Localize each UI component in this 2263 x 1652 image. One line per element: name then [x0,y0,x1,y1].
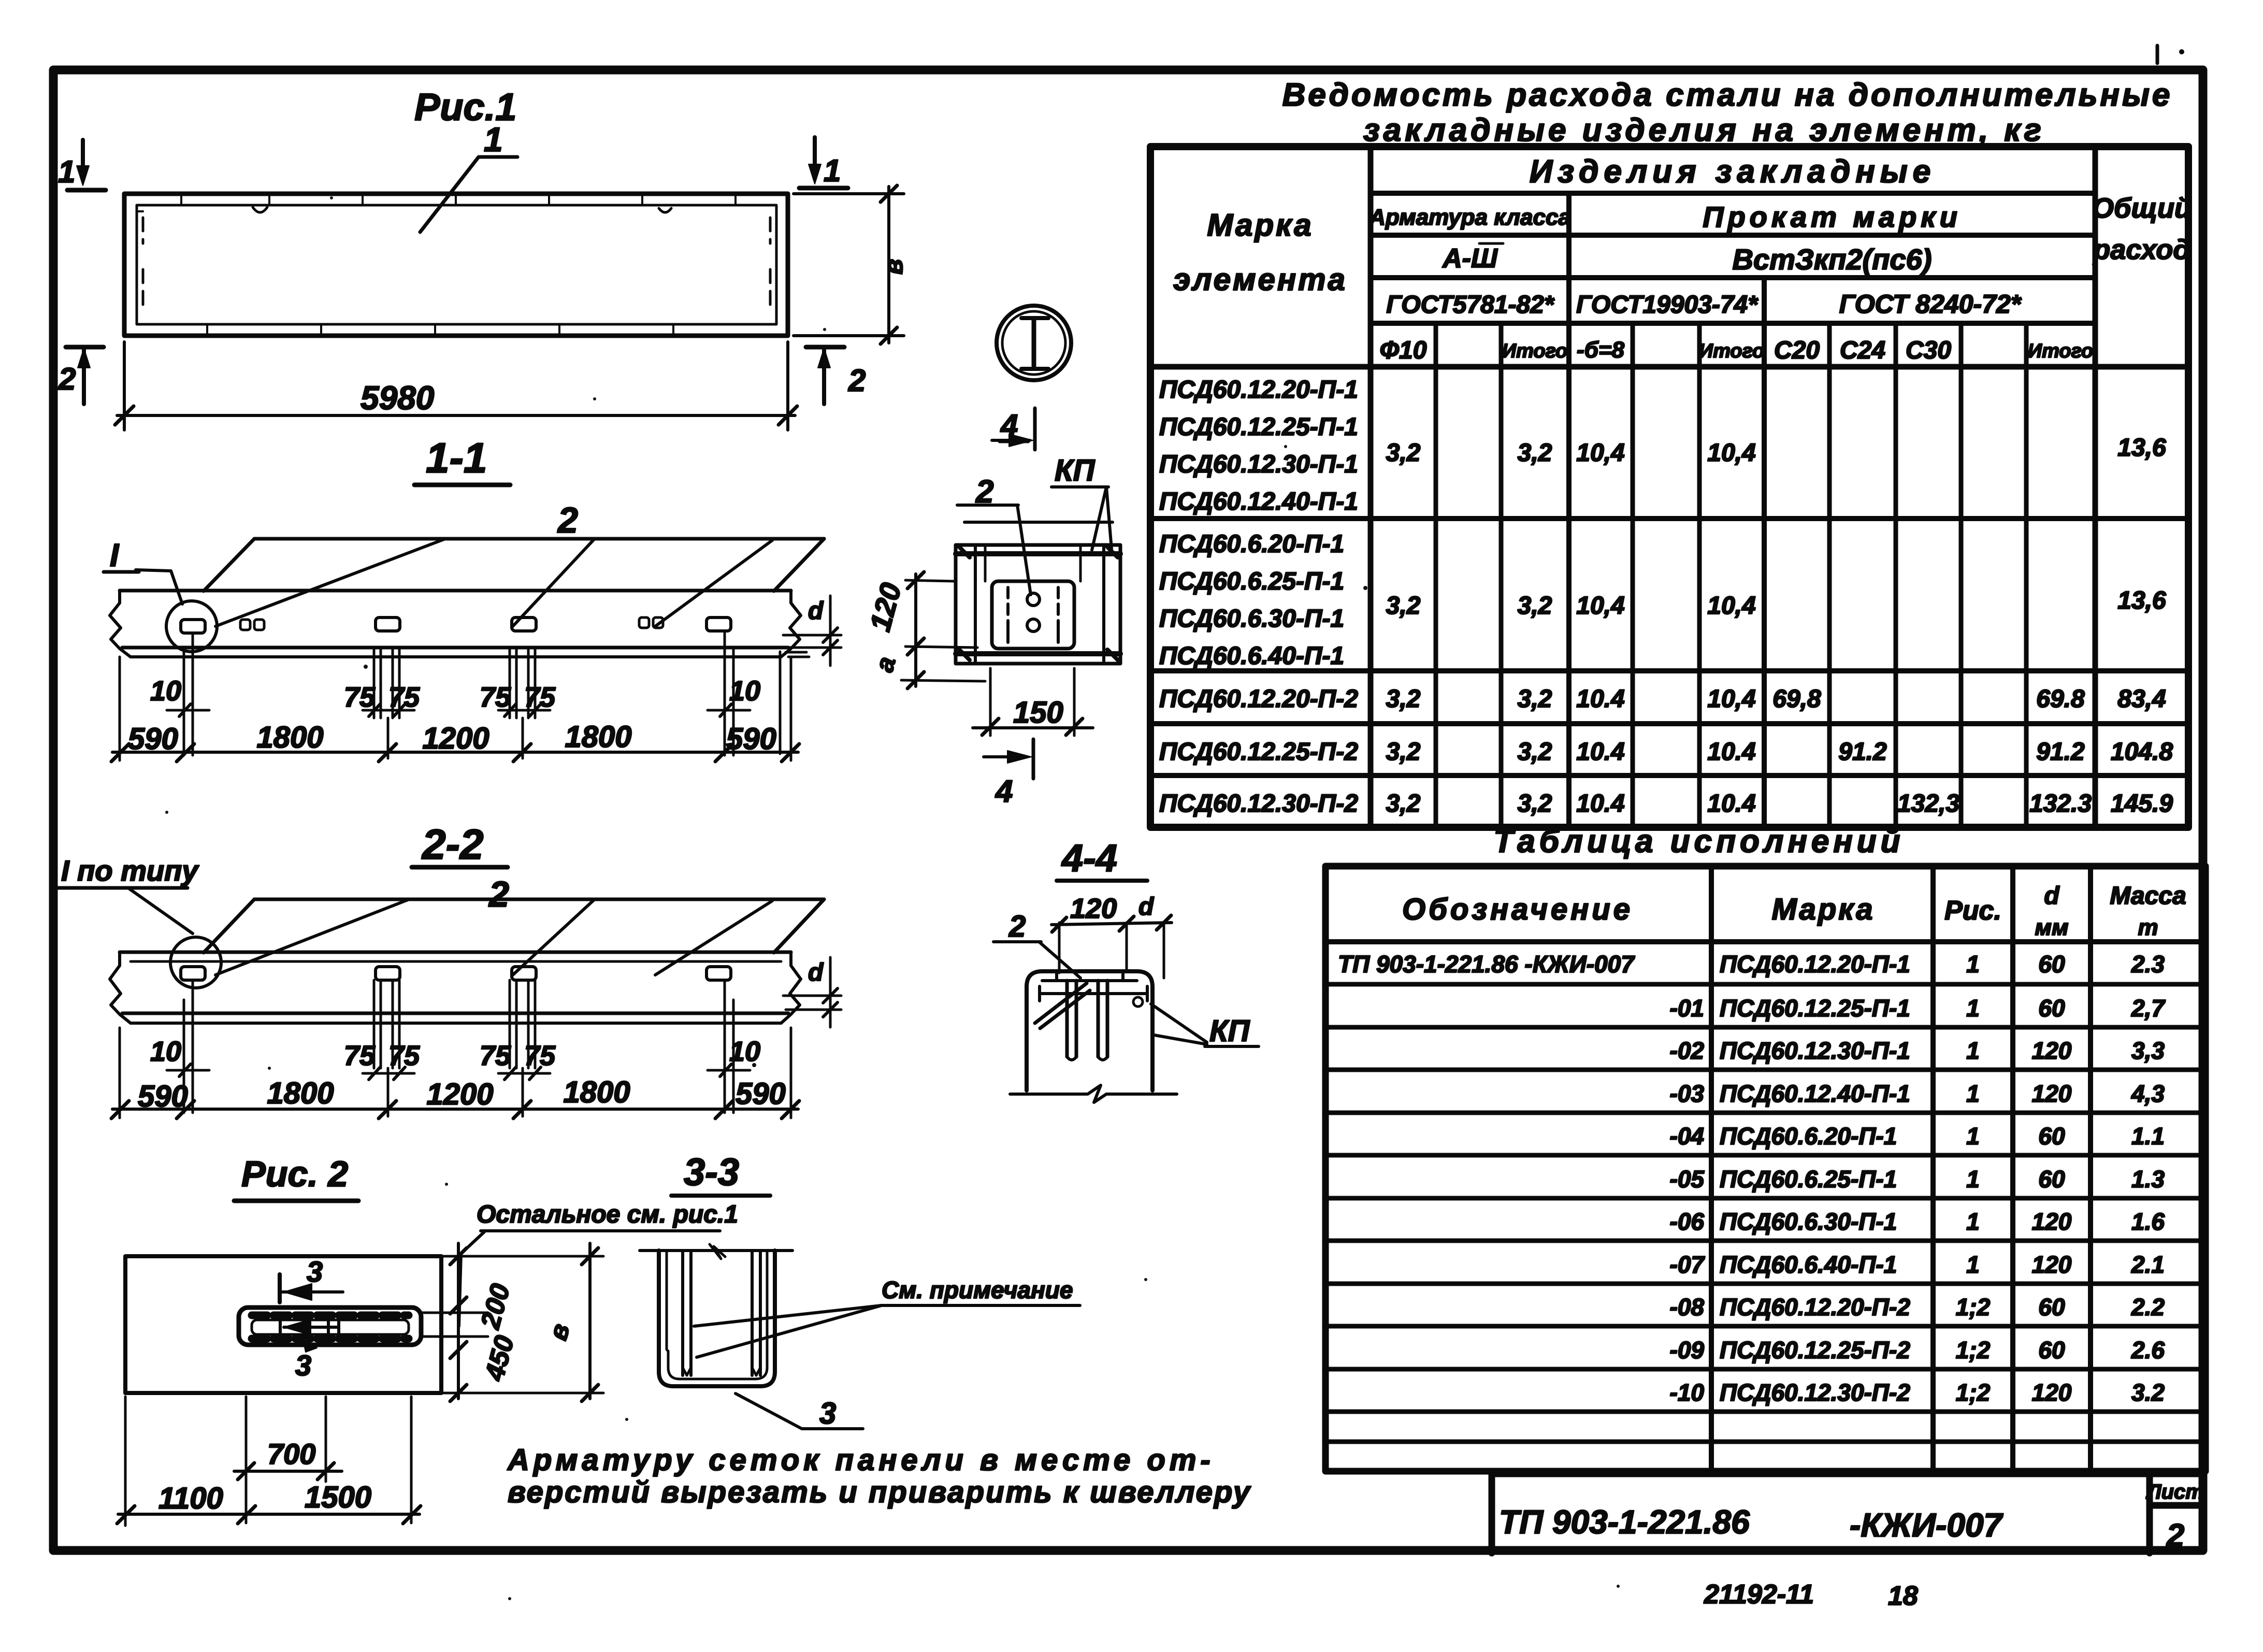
section marker 4 top [992,408,1035,450]
svg-text:-08: -08 [1670,1294,1705,1320]
section 1-1 dims 10 [150,633,760,755]
svg-text:10: 10 [150,1036,181,1067]
svg-text:590: 590 [128,722,178,756]
svg-text:Общий: Общий [2092,193,2192,224]
label КП on detail view [1051,454,1112,550]
svg-text:3: 3 [307,1255,323,1288]
svg-text:60: 60 [2038,995,2065,1022]
svg-text:2: 2 [848,363,866,398]
svg-text:Итого: Итого [1502,340,1567,362]
svg-text:Ф10: Ф10 [1380,337,1427,364]
svg-text:Обозначение: Обозначение [1402,893,1633,926]
section marker 2 left [58,347,104,404]
section heading 2-2 [412,821,508,868]
svg-text:С24: С24 [1840,337,1885,364]
svg-text:75: 75 [344,682,376,713]
svg-text:ПСД60.6.20-П-1: ПСД60.6.20-П-1 [1720,1123,1897,1150]
svg-text:3,2: 3,2 [1518,738,1552,766]
svg-text:10.4: 10.4 [1576,738,1624,766]
svg-text:3,2: 3,2 [1518,685,1552,713]
section 2-2 dim d at right end [783,957,841,1027]
svg-text:Остальное см. рис.1: Остальное см. рис.1 [477,1201,738,1228]
svg-text:83,4: 83,4 [2117,685,2166,713]
leader 2 on detail view [957,474,1031,595]
section heading 3-3 [671,1151,770,1196]
svg-text:1: 1 [824,153,841,188]
execution table header texts [1402,882,2186,940]
svg-text:10,4: 10,4 [1576,592,1624,620]
svg-text:3: 3 [819,1397,836,1430]
svg-text:120: 120 [2032,1080,2072,1107]
svg-text:Ведомость расхода стали на доп: Ведомость расхода стали на дополнительны… [1282,77,2173,113]
dim 700 below Рис.2 [234,1397,342,1523]
svg-text:d: d [808,597,824,625]
section 2-2 beam body [110,952,801,1023]
execution table data rows [1338,951,2166,1406]
channel slot in Рис.2 [239,1308,421,1345]
section 2-2 callout plane 2 [204,874,824,975]
height dimension в right of panel [794,185,908,344]
svg-text:75: 75 [524,1040,556,1071]
svg-text:Арматуру сеток панели в ме: Арматуру сеток панели в месте от- [507,1443,1215,1477]
svg-text:590: 590 [726,722,776,756]
section 1-1 studs and 75 dims [344,648,556,718]
svg-text:60: 60 [2038,1123,2065,1150]
svg-text:1;2: 1;2 [1956,1294,1991,1320]
svg-text:120: 120 [863,580,907,635]
svg-text:1: 1 [1966,1166,1980,1193]
svg-text:10.4: 10.4 [1576,685,1624,713]
section 1-1 main dimension line 590 1800 1200 1800 590 [111,657,799,762]
svg-text:60: 60 [2038,1166,2065,1193]
svg-text:590: 590 [736,1077,786,1111]
svg-text:А-Ш: А-Ш [1442,243,1498,274]
svg-text:закладные изделия на элемен: закладные изделия на элемент, кг [1363,112,2045,148]
svg-text:2.2: 2.2 [2131,1294,2165,1320]
svg-text:в: в [879,259,908,275]
svg-text:ПСД60.12.25-П-2: ПСД60.12.25-П-2 [1159,738,1358,766]
section 1-1 embedded plates [181,617,731,633]
section 4-4 dims 120 and d [1051,893,1172,978]
svg-text:1;2: 1;2 [1956,1379,1991,1406]
svg-text:1200: 1200 [422,722,489,755]
section 1-1 callout plane 2 [204,500,824,626]
table «Таблица исполнений» title [1493,824,1904,859]
detail circle on 2-2 [170,937,221,988]
svg-text:5980: 5980 [361,379,434,416]
svg-text:Марка: Марка [1207,208,1313,242]
svg-text:ГОСТ5781-82*: ГОСТ5781-82* [1386,291,1554,319]
svg-text:ПСД60.12.30-П-1: ПСД60.12.30-П-1 [1159,451,1358,478]
svg-text:2: 2 [58,362,76,396]
svg-text:10: 10 [729,676,760,707]
panel plan view Рис.1 [124,194,788,336]
svg-text:-09: -09 [1670,1337,1705,1363]
svg-text:а: а [870,653,901,674]
execution table grid [1325,866,2206,1471]
table header texts [1173,154,2192,364]
svg-text:2-2: 2-2 [421,821,484,868]
leader 3 on section 3-3 [736,1394,863,1430]
svg-text:ТП 903-1-221.86: ТП 903-1-221.86 [1499,1503,1750,1541]
svg-text:ПСД60.12.20-П-1: ПСД60.12.20-П-1 [1159,376,1358,404]
svg-text:3,2: 3,2 [1386,738,1421,766]
svg-text:Итого: Итого [1699,340,1764,362]
svg-text:75: 75 [480,682,511,713]
svg-text:1800: 1800 [256,721,323,754]
svg-text:d: d [1138,893,1155,921]
svg-text:мм: мм [2035,915,2068,940]
svg-text:ПСД60.12.30-П-2: ПСД60.12.30-П-2 [1159,790,1358,817]
svg-text:ПСД60.6.30-П-1: ПСД60.6.30-П-1 [1159,605,1344,633]
svg-text:1100: 1100 [158,1482,223,1515]
svg-text:ПСД60.12.25-П-2: ПСД60.12.25-П-2 [1720,1337,1910,1363]
svg-text:ПСД60.6.40-П-1: ПСД60.6.40-П-1 [1159,642,1344,670]
leader 2 on section 4-4 [993,910,1080,978]
svg-text:ПСД60.12.25-П-1: ПСД60.12.25-П-1 [1159,413,1358,441]
svg-text:60: 60 [2038,951,2065,978]
svg-text:60: 60 [2038,1294,2065,1320]
svg-text:ПСД60.12.40-П-1: ПСД60.12.40-П-1 [1720,1080,1910,1107]
svg-text:2: 2 [488,874,509,914]
section 4-4 break line [1010,1085,1177,1102]
svg-text:200: 200 [475,1281,516,1332]
figure label Рис.1 [414,85,516,128]
svg-text:3,2: 3,2 [1386,685,1421,713]
svg-text:-07: -07 [1670,1251,1706,1278]
svg-text:13,6: 13,6 [2117,434,2166,462]
svg-text:2.6: 2.6 [2131,1337,2165,1363]
svg-text:3,2: 3,2 [1386,439,1421,467]
svg-text:КП: КП [1209,1014,1250,1048]
svg-text:4,3: 4,3 [2131,1080,2165,1107]
svg-text:1800: 1800 [563,1075,630,1109]
detail circle I on 1-1 [104,538,217,652]
steel consumption table grid [1150,147,2188,827]
svg-text:2: 2 [2166,1518,2184,1554]
dim 120 and a left of detail view [863,572,985,688]
figure label Рис.2 [234,1154,358,1201]
svg-text:10: 10 [150,676,181,707]
svg-text:ПСД60.6.25-П-1: ПСД60.6.25-П-1 [1720,1166,1897,1193]
svg-text:Таблица исполнений: Таблица исполнений [1493,824,1904,859]
section marker 4 bottom [984,739,1033,809]
svg-text:91.2: 91.2 [1838,738,1887,766]
svg-text:590: 590 [138,1080,188,1113]
svg-text:3,2: 3,2 [1386,592,1421,620]
svg-text:13,6: 13,6 [2117,587,2166,614]
svg-text:Лист: Лист [2145,1481,2204,1503]
svg-text:120: 120 [2032,1251,2072,1278]
svg-text:верстий вырезать и приварит: верстий вырезать и приварить к швеллеру [508,1475,1251,1509]
svg-text:ВстЗкп2(пс6): ВстЗкп2(пс6) [1733,243,1932,276]
svg-text:-10: -10 [1670,1379,1705,1406]
svg-text:1: 1 [1966,951,1980,978]
svg-text:3: 3 [295,1349,311,1382]
dims 1100 1500 below Рис.2 [117,1397,421,1526]
section heading 1-1 [414,435,510,485]
svg-text:104.8: 104.8 [2111,738,2173,766]
svg-text:ГОСТ 8240-72*: ГОСТ 8240-72* [1839,290,2022,319]
svg-text:ПСД60.6.20-П-1: ПСД60.6.20-П-1 [1159,530,1344,558]
svg-text:Прокат марки: Прокат марки [1703,200,1962,233]
label Остальное см.рис.1 [459,1201,738,1326]
detail view I plate assembly [956,522,1120,664]
svg-text:1500: 1500 [305,1481,371,1514]
table data rows [1159,376,2173,817]
dims 200 450 в right of Рис.2 [421,1243,603,1401]
svg-text:1: 1 [58,154,75,189]
svg-text:Рис. 2: Рис. 2 [241,1154,348,1194]
section heading 4-4 [1057,837,1147,881]
svg-text:-01: -01 [1670,995,1704,1022]
scan noise specks [165,196,1620,1600]
svg-text:18: 18 [1888,1581,1918,1611]
svg-text:1.6: 1.6 [2131,1208,2165,1235]
svg-text:1: 1 [1966,1080,1980,1107]
svg-text:1.3: 1.3 [2131,1166,2165,1193]
svg-text:ПСД60.6.40-П-1: ПСД60.6.40-П-1 [1720,1251,1897,1278]
table «Ведомость расхода стали» title [1282,77,2173,148]
svg-text:Арматура класса: Арматура класса [1368,205,1571,230]
svg-text:120: 120 [1070,893,1117,924]
svg-text:132,3: 132,3 [1897,790,1959,817]
label КП on section 4-4 [1151,1004,1259,1048]
svg-text:1800: 1800 [565,720,631,754]
svg-text:75: 75 [524,682,556,713]
leader 1 on panel [420,120,517,232]
svg-text:ПСД60.12.20-П-2: ПСД60.12.20-П-2 [1159,685,1358,713]
section 2-2 main dimension line 590 1800 1200 1800 590 [111,1028,799,1118]
svg-text:150: 150 [1013,696,1063,729]
svg-text:ПСД60.12.20-П-2: ПСД60.12.20-П-2 [1720,1294,1910,1320]
svg-text:75: 75 [480,1040,511,1071]
svg-text:10,4: 10,4 [1707,592,1755,620]
svg-text:4: 4 [995,774,1013,809]
svg-text:ПСД60.12.30-П-2: ПСД60.12.30-П-2 [1720,1379,1910,1406]
svg-text:ПСД60.6.25-П-1: ПСД60.6.25-П-1 [1159,568,1344,595]
svg-text:91.2: 91.2 [2036,738,2085,766]
svg-text:ПСД60.12.40-П-1: ПСД60.12.40-П-1 [1159,488,1358,515]
svg-text:d: d [2044,882,2060,910]
svg-text:в: в [543,1320,575,1343]
svg-text:Итого: Итого [2028,340,2093,362]
svg-text:ПСД60.12.20-П-1: ПСД60.12.20-П-1 [1720,951,1910,978]
svg-text:69.8: 69.8 [2036,685,2085,713]
svg-text:I: I [110,538,120,573]
svg-text:3,2: 3,2 [1518,592,1552,620]
svg-text:1;2: 1;2 [1956,1337,1991,1363]
svg-text:21192-11: 21192-11 [1704,1579,1814,1610]
svg-text:Изделия закладные: Изделия закладные [1530,154,1936,190]
note text about cutting mesh reinforcement [507,1443,1251,1509]
svg-text:3,3: 3,3 [2131,1037,2165,1064]
section marker 2 right [806,347,866,404]
section 1-1 beam body [110,591,801,657]
svg-text:2.3: 2.3 [2131,951,2165,978]
svg-text:4-4: 4-4 [1061,837,1117,880]
svg-text:ПСД60.6.30-П-1: ПСД60.6.30-П-1 [1720,1208,1897,1235]
svg-text:2: 2 [557,500,578,540]
svg-text:С20: С20 [1774,337,1820,364]
svg-text:ПСД60.12.25-П-1: ПСД60.12.25-П-1 [1720,995,1910,1022]
svg-text:10,4: 10,4 [1576,439,1624,467]
svg-text:-04: -04 [1670,1123,1704,1150]
svg-text:75: 75 [388,682,420,713]
svg-text:-03: -03 [1670,1080,1705,1107]
svg-text:3,2: 3,2 [1518,790,1552,817]
svg-text:I по типу: I по типу [61,854,199,887]
svg-text:75: 75 [388,1040,420,1071]
svg-text:КП: КП [1055,454,1096,487]
svg-text:1.1: 1.1 [2131,1123,2165,1150]
section marker 3 bottom on Рис.2 [295,1342,317,1382]
svg-text:1: 1 [1966,1251,1980,1278]
svg-text:2,7: 2,7 [2131,995,2166,1022]
dim 150 below detail view [973,668,1093,736]
svg-text:Рис.: Рис. [1944,896,2001,926]
svg-text:69,8: 69,8 [1772,685,1821,713]
svg-text:120: 120 [2032,1208,2072,1235]
svg-text:-05: -05 [1670,1166,1705,1193]
svg-text:-КЖИ-007: -КЖИ-007 [1850,1506,2004,1544]
svg-text:расход: расход [2092,234,2190,265]
section 1-1 dim d at right end [780,596,841,754]
svg-text:10.4: 10.4 [1707,790,1755,817]
svg-text:1-1: 1-1 [426,435,487,482]
section 4-4 channel with studs [1027,971,1152,1090]
svg-text:См. примечание: См. примечание [882,1276,1073,1303]
dimension 5980 [115,342,797,430]
svg-text:Масса: Масса [2110,882,2186,910]
svg-text:1800: 1800 [267,1076,334,1110]
svg-text:ТП 903-1-221.86 -КЖИ-007: ТП 903-1-221.86 -КЖИ-007 [1338,951,1635,978]
section 3-3 channel [640,1244,792,1386]
section 2-2 dims 10 [150,980,760,1113]
svg-text:1: 1 [1966,1123,1980,1150]
section 2-2 embedded plates [181,967,731,980]
section marker 3 top on Рис.2 [280,1255,343,1302]
svg-text:700: 700 [267,1438,315,1470]
svg-text:3,2: 3,2 [1386,790,1421,817]
svg-text:-02: -02 [1670,1037,1705,1064]
svg-text:3,2: 3,2 [1518,439,1552,467]
svg-text:10.4: 10.4 [1707,738,1755,766]
svg-text:элемента: элемента [1173,262,1347,297]
svg-text:-06: -06 [1670,1208,1705,1235]
svg-text:145.9: 145.9 [2111,790,2173,817]
svg-text:1: 1 [1966,1208,1980,1235]
svg-text:10,4: 10,4 [1707,685,1755,713]
svg-text:3.2: 3.2 [2131,1379,2165,1406]
section marker 1 left [58,140,106,190]
section 2-2 studs and 75 dims [344,980,556,1080]
detail callout symbol circled I [997,306,1071,380]
svg-text:75: 75 [344,1040,376,1071]
svg-text:1: 1 [1966,1037,1980,1064]
svg-text:d: d [808,959,824,986]
label I по типу [58,854,199,933]
svg-text:60: 60 [2038,1337,2065,1363]
document number below frame [1704,1579,1918,1611]
svg-text:1: 1 [1966,995,1980,1022]
svg-text:С30: С30 [1906,337,1951,364]
svg-text:Марка: Марка [1771,893,1875,926]
svg-text:3-3: 3-3 [684,1151,739,1194]
svg-text:2: 2 [1008,910,1026,943]
svg-text:1: 1 [484,120,503,159]
svg-text:ГОСТ19903-74*: ГОСТ19903-74* [1576,291,1758,319]
section marker 1 right [799,137,848,188]
panel plan Рис.2 [125,1256,441,1393]
svg-text:120: 120 [2032,1379,2072,1406]
svg-text:ПСД60.12.30-П-1: ПСД60.12.30-П-1 [1720,1037,1910,1064]
svg-text:10.4: 10.4 [1576,790,1624,817]
svg-text:-б=8: -б=8 [1577,337,1625,363]
svg-text:т: т [2138,915,2158,940]
svg-text:120: 120 [2032,1037,2072,1064]
svg-text:450: 450 [479,1332,520,1384]
svg-text:10,4: 10,4 [1707,439,1755,467]
registration marks outside frame top-right [2157,46,2184,63]
svg-text:132.3: 132.3 [2029,790,2092,817]
title block [1492,1474,2203,1553]
label См. примечание [694,1276,1080,1357]
svg-text:10: 10 [729,1036,760,1067]
svg-text:1200: 1200 [426,1078,493,1111]
svg-text:2.1: 2.1 [2131,1251,2165,1278]
